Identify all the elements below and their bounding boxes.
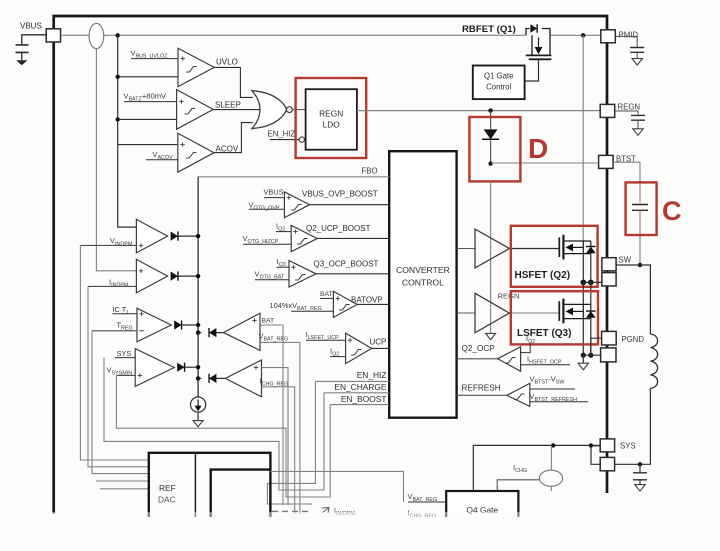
- svg-text:SYS: SYS: [117, 349, 132, 358]
- wire converter to LS driver: [457, 312, 475, 314]
- wire SYS jog: [591, 446, 600, 465]
- wire Q2_OCP output: [457, 358, 498, 360]
- svg-text:UVLO: UVLO: [216, 58, 238, 67]
- svg-text:SYS: SYS: [620, 442, 636, 451]
- label dashed fade: [272, 511, 308, 513]
- wire EN_HIZ stub: [315, 380, 389, 382]
- inductor output: [650, 334, 657, 388]
- transistor Q3 LSFET: [558, 301, 560, 321]
- wire VBUS to cap: [22, 35, 46, 45]
- wire Q3_OCP plus input: [277, 266, 290, 268]
- comparator thermal TREG: [137, 308, 171, 342]
- wire Q3 source to PGND: [583, 319, 591, 356]
- wire DAC output to Q4: [270, 471, 403, 502]
- svg-text:REGN: REGN: [618, 103, 641, 112]
- fade bottom edge: [0, 517, 720, 551]
- pin PMID: [601, 30, 616, 43]
- svg-text:Q2_OCP: Q2_OCP: [462, 344, 496, 353]
- wire VBAT_REG q4: [408, 501, 446, 503]
- wire TREG minus input: [92, 330, 137, 332]
- wire converter to HS driver: [457, 248, 475, 250]
- wire BATOVP output: [357, 303, 389, 305]
- wire BATOVP minus input: [291, 310, 333, 312]
- block REF DAC: [149, 453, 271, 520]
- svg-text:EN_BOOST: EN_BOOST: [341, 394, 387, 404]
- wire UCP minus input: [330, 356, 346, 358]
- wire EN_CHARGE stub: [324, 392, 389, 394]
- wire PMID to HSFET drain column: [582, 35, 584, 241]
- wire VSYSMIN plus input: [116, 374, 135, 376]
- wire UVLO minus tap: [118, 76, 178, 78]
- svg-text:Q3_OCP_BOOST: Q3_OCP_BOOST: [314, 260, 379, 269]
- wire LS driver to gate: [509, 312, 559, 314]
- wire PGND links: [583, 338, 601, 355]
- wire VSYSMIN route: [116, 375, 330, 497]
- node PGND internal a: [581, 353, 586, 358]
- pin SW lower: [602, 273, 616, 286]
- wire input-current-sense column: [96, 49, 136, 271]
- capacitor SYS output: [639, 464, 641, 472]
- ground current source: [197, 412, 199, 420]
- wire SYS comp input: [115, 357, 135, 359]
- wire IINDPM minus input: [88, 285, 136, 287]
- ground PMID cap: [632, 59, 642, 66]
- amplifier VBAT_REG: [223, 313, 260, 350]
- wire ICHG tap: [497, 480, 539, 491]
- wire DAC aux route b: [100, 488, 149, 490]
- wire BATOVP plus input: [320, 297, 333, 299]
- svg-text:Control: Control: [486, 83, 511, 92]
- gate NOR (UVLO/SLEEP/ACOV): [252, 91, 287, 129]
- wire Q2_UCP minus input: [243, 243, 291, 245]
- comparator VSYSMIN: [135, 349, 174, 387]
- diode VSYSMIN: [177, 363, 184, 372]
- wire SYS route: [104, 358, 324, 490]
- capacitor VBUS input cap: [16, 45, 29, 53]
- pin PGND lower: [601, 348, 616, 362]
- amplifier ICHG_REG: [225, 360, 261, 397]
- wire Q2_OCP minus input: [521, 364, 570, 366]
- node PGND internal b: [588, 353, 593, 358]
- ground VBUS cap: [16, 60, 27, 65]
- wire REGN to diode D: [490, 111, 492, 130]
- driver LSFET gate driver: [475, 293, 509, 333]
- node bus vindpm: [196, 234, 200, 238]
- comparator UCP: [346, 333, 372, 363]
- wire EN_HIZ input: [270, 139, 299, 141]
- diode TREG: [174, 320, 181, 329]
- highlight box LSFET: [511, 291, 598, 344]
- wire EN_BOOST stub: [330, 404, 389, 406]
- wire VBUS_OVP minus input: [249, 208, 284, 210]
- capacitor REGN bypass: [631, 115, 645, 120]
- wire ICHG amp plus input: [262, 368, 289, 505]
- wire SLEEP output: [213, 109, 261, 111]
- block REGN LDO: [306, 89, 357, 150]
- label IIN/DPM: [322, 508, 329, 514]
- current sense ellipse ICHG: [539, 470, 562, 486]
- svg-text:BATOVP: BATOVP: [351, 296, 383, 305]
- wire PMID rail segment: [550, 34, 601, 36]
- ground LSFET source: [582, 355, 584, 363]
- capacitor C bootstrap: [632, 205, 648, 211]
- wire DAC aux route a: [96, 480, 149, 482]
- wire SYS internal rail: [473, 445, 600, 491]
- wire PMID cap: [615, 36, 637, 46]
- current sense ellipse VBUS: [89, 23, 104, 48]
- svg-text:EN_HIZ: EN_HIZ: [357, 370, 387, 380]
- wire REFRESH output: [457, 394, 507, 396]
- svg-text:BAT: BAT: [262, 318, 275, 325]
- wire NOR output to REGN LDO: [292, 109, 305, 111]
- node VBUS junction: [116, 33, 120, 37]
- wire ICTJ plus input: [113, 313, 138, 315]
- wire Q1 gate: [525, 59, 539, 81]
- pin VBUS: [46, 29, 60, 42]
- wire ACOV minus input: [146, 159, 178, 161]
- wire BAT input: [260, 325, 283, 505]
- node SW cap junction: [638, 263, 642, 267]
- wire REFRESH plus input: [530, 388, 575, 390]
- pin BTST: [599, 155, 614, 168]
- pin PGND upper: [602, 331, 617, 345]
- driver HSFET gate driver: [475, 229, 509, 268]
- wire UCP plus input: [306, 339, 346, 341]
- comparator Q3_OCP_BOOST: [289, 261, 316, 287]
- highlight box D: [469, 117, 520, 181]
- wire ICHG_REG q4: [408, 517, 446, 519]
- ground driver: [486, 333, 496, 339]
- svg-text:CONVERTER: CONVERTER: [396, 265, 450, 275]
- diode BATREG clamp: [198, 332, 223, 334]
- svg-text:J: J: [126, 310, 129, 316]
- svg-text:REGN: REGN: [498, 292, 520, 301]
- svg-text:REGN: REGN: [319, 109, 343, 119]
- current source bias: [191, 397, 206, 412]
- highlight box C: [626, 182, 657, 235]
- svg-text:Q2_UCP_BOOST: Q2_UCP_BOOST: [306, 224, 371, 233]
- svg-text:RBFET (Q1): RBFET (Q1): [462, 24, 516, 35]
- pin SW upper: [602, 258, 616, 271]
- block Q4 Gate: [446, 491, 518, 547]
- svg-text:C: C: [662, 196, 682, 226]
- svg-text:FBO: FBO: [362, 167, 378, 176]
- wire IINDPM route to DAC: [88, 286, 149, 466]
- comparator IINDPM: [136, 259, 167, 292]
- diode D bootstrap: [484, 129, 498, 139]
- svg-text:HSFET (Q2): HSFET (Q2): [515, 270, 571, 281]
- wire SW internal rail: [583, 281, 602, 283]
- wire VBAT_REG input: [260, 342, 300, 514]
- wire Q3_OCP_BOOST output: [316, 273, 389, 275]
- node SW internal a: [581, 280, 587, 286]
- svg-text:EN_CHARGE: EN_CHARGE: [334, 382, 387, 392]
- wire VBUS rail: [61, 34, 527, 36]
- wire REFRESH minus input: [530, 401, 588, 403]
- svg-text:DAC: DAC: [158, 495, 176, 505]
- node bus vsysmin: [196, 365, 200, 369]
- svg-text:BAT: BAT: [320, 291, 333, 298]
- wire VBUS_OVP plus input: [264, 197, 284, 199]
- svg-text:EN_HIZ: EN_HIZ: [268, 130, 296, 139]
- wire SLEEP minus tap: [118, 118, 177, 120]
- wire Q2 source to SW: [583, 254, 591, 283]
- wire REGN cap: [615, 111, 638, 115]
- node BTST junction: [488, 161, 492, 165]
- wire ICHG sense drop: [550, 445, 552, 491]
- wire VINDPM route to DAC: [80, 245, 148, 460]
- wire EN_HIZ route: [267, 381, 315, 504]
- svg-text:REFRESH: REFRESH: [462, 384, 501, 393]
- comparator VBUS_OVP_BOOST: [284, 192, 309, 218]
- comparator ACOV: [178, 133, 214, 172]
- pin REGN: [600, 104, 615, 117]
- wire VINDPM minus input: [80, 244, 136, 246]
- wire Q3_OCP minus input: [255, 279, 289, 281]
- node SYS rail b: [589, 443, 593, 447]
- node bus batreg: [196, 330, 200, 334]
- svg-text:SW: SW: [619, 256, 632, 265]
- wire diode D to BTST pin: [491, 162, 599, 164]
- wire ICHG_REG input: [262, 387, 295, 514]
- node bus iindpm: [196, 274, 200, 278]
- wire SW to inductor: [616, 265, 650, 334]
- node UVLO tap: [116, 75, 120, 79]
- wire Q2_UCP_BOOST output: [317, 237, 389, 239]
- block Q1 Gate Control: [473, 66, 525, 100]
- pin SYS upper: [600, 439, 614, 452]
- wire inductor to SYS: [615, 388, 650, 464]
- diode ICHGREG clamp: [198, 377, 225, 379]
- svg-text:VBUS: VBUS: [20, 22, 42, 31]
- wire VBUS sense column: [118, 35, 137, 227]
- node SYS rail a: [551, 443, 555, 447]
- diode Q2 body: [586, 246, 596, 253]
- highlight box REGN LDO: [296, 78, 367, 158]
- wire ACOV output: [214, 123, 253, 153]
- ground SYS cap: [635, 485, 645, 492]
- wire Q2_UCP plus input: [276, 231, 291, 233]
- comparator Q2_UCP_BOOST: [291, 225, 317, 251]
- comparator Q2_OCP: [498, 347, 521, 371]
- svg-text:D: D: [528, 133, 548, 164]
- svg-text:LDO: LDO: [323, 120, 341, 130]
- svg-text:CONTROL: CONTROL: [402, 278, 444, 288]
- comparator UVLO: [178, 48, 214, 86]
- block DAC second: [211, 470, 271, 520]
- capacitor PMID bypass: [630, 48, 644, 53]
- node SLEEP tap: [116, 117, 120, 121]
- node PMID junction: [581, 33, 585, 37]
- wire ACOV plus tap: [118, 144, 178, 146]
- svg-text:REF: REF: [159, 483, 176, 493]
- wire Q2_OCP plus input: [521, 343, 531, 353]
- transistor Q2 HSFET: [558, 237, 560, 257]
- node REGN diode tap: [488, 108, 492, 112]
- diode IINDPM: [171, 272, 178, 281]
- IC boundary: [54, 16, 607, 514]
- node bus ichgreg: [196, 376, 200, 380]
- wire Q3 drain to SW: [583, 282, 591, 304]
- wire TREG route to DAC: [92, 331, 149, 474]
- diode VINDPM: [171, 232, 178, 241]
- svg-text:UCP: UCP: [370, 338, 387, 347]
- svg-text:SLEEP: SLEEP: [215, 101, 241, 110]
- pin SYS lower: [600, 457, 614, 470]
- highlight box HSFET: [511, 226, 598, 287]
- svg-text:PMID: PMID: [619, 31, 639, 40]
- wire BTST to bootstrap cap: [613, 162, 640, 203]
- wire VBUS_OVP_BOOST output: [310, 204, 390, 206]
- wire BTST supply column to driver ground: [490, 182, 492, 334]
- wire HS driver to gate: [509, 248, 559, 250]
- node SYS cap junction: [638, 462, 642, 466]
- comparator SLEEP: [177, 90, 214, 130]
- wire UCP output: [372, 347, 390, 349]
- svg-text:Q1 Gate: Q1 Gate: [484, 72, 513, 81]
- wire FBO: [198, 176, 389, 178]
- svg-text:PGND: PGND: [622, 335, 645, 344]
- ground REGN cap: [633, 129, 643, 136]
- comparator BATOVP: [333, 291, 357, 317]
- node bus treg: [196, 323, 200, 327]
- block CONVERTER CONTROL: [389, 151, 456, 418]
- wire UVLO output: [214, 67, 253, 97]
- wire FBO bus: [197, 177, 199, 397]
- svg-text:VBUS_OVP_BOOST: VBUS_OVP_BOOST: [302, 190, 378, 199]
- wire UVLO plus input: [131, 58, 178, 60]
- comparator VINDPM: [136, 219, 167, 252]
- node SW internal b: [588, 280, 594, 286]
- comparator REFRESH: [507, 383, 530, 406]
- diode Q3 body: [586, 311, 596, 318]
- svg-text:VBUS: VBUS: [264, 188, 284, 197]
- wire SLEEP plus input: [124, 101, 177, 103]
- wire REGN rail to REGN pin: [357, 110, 600, 112]
